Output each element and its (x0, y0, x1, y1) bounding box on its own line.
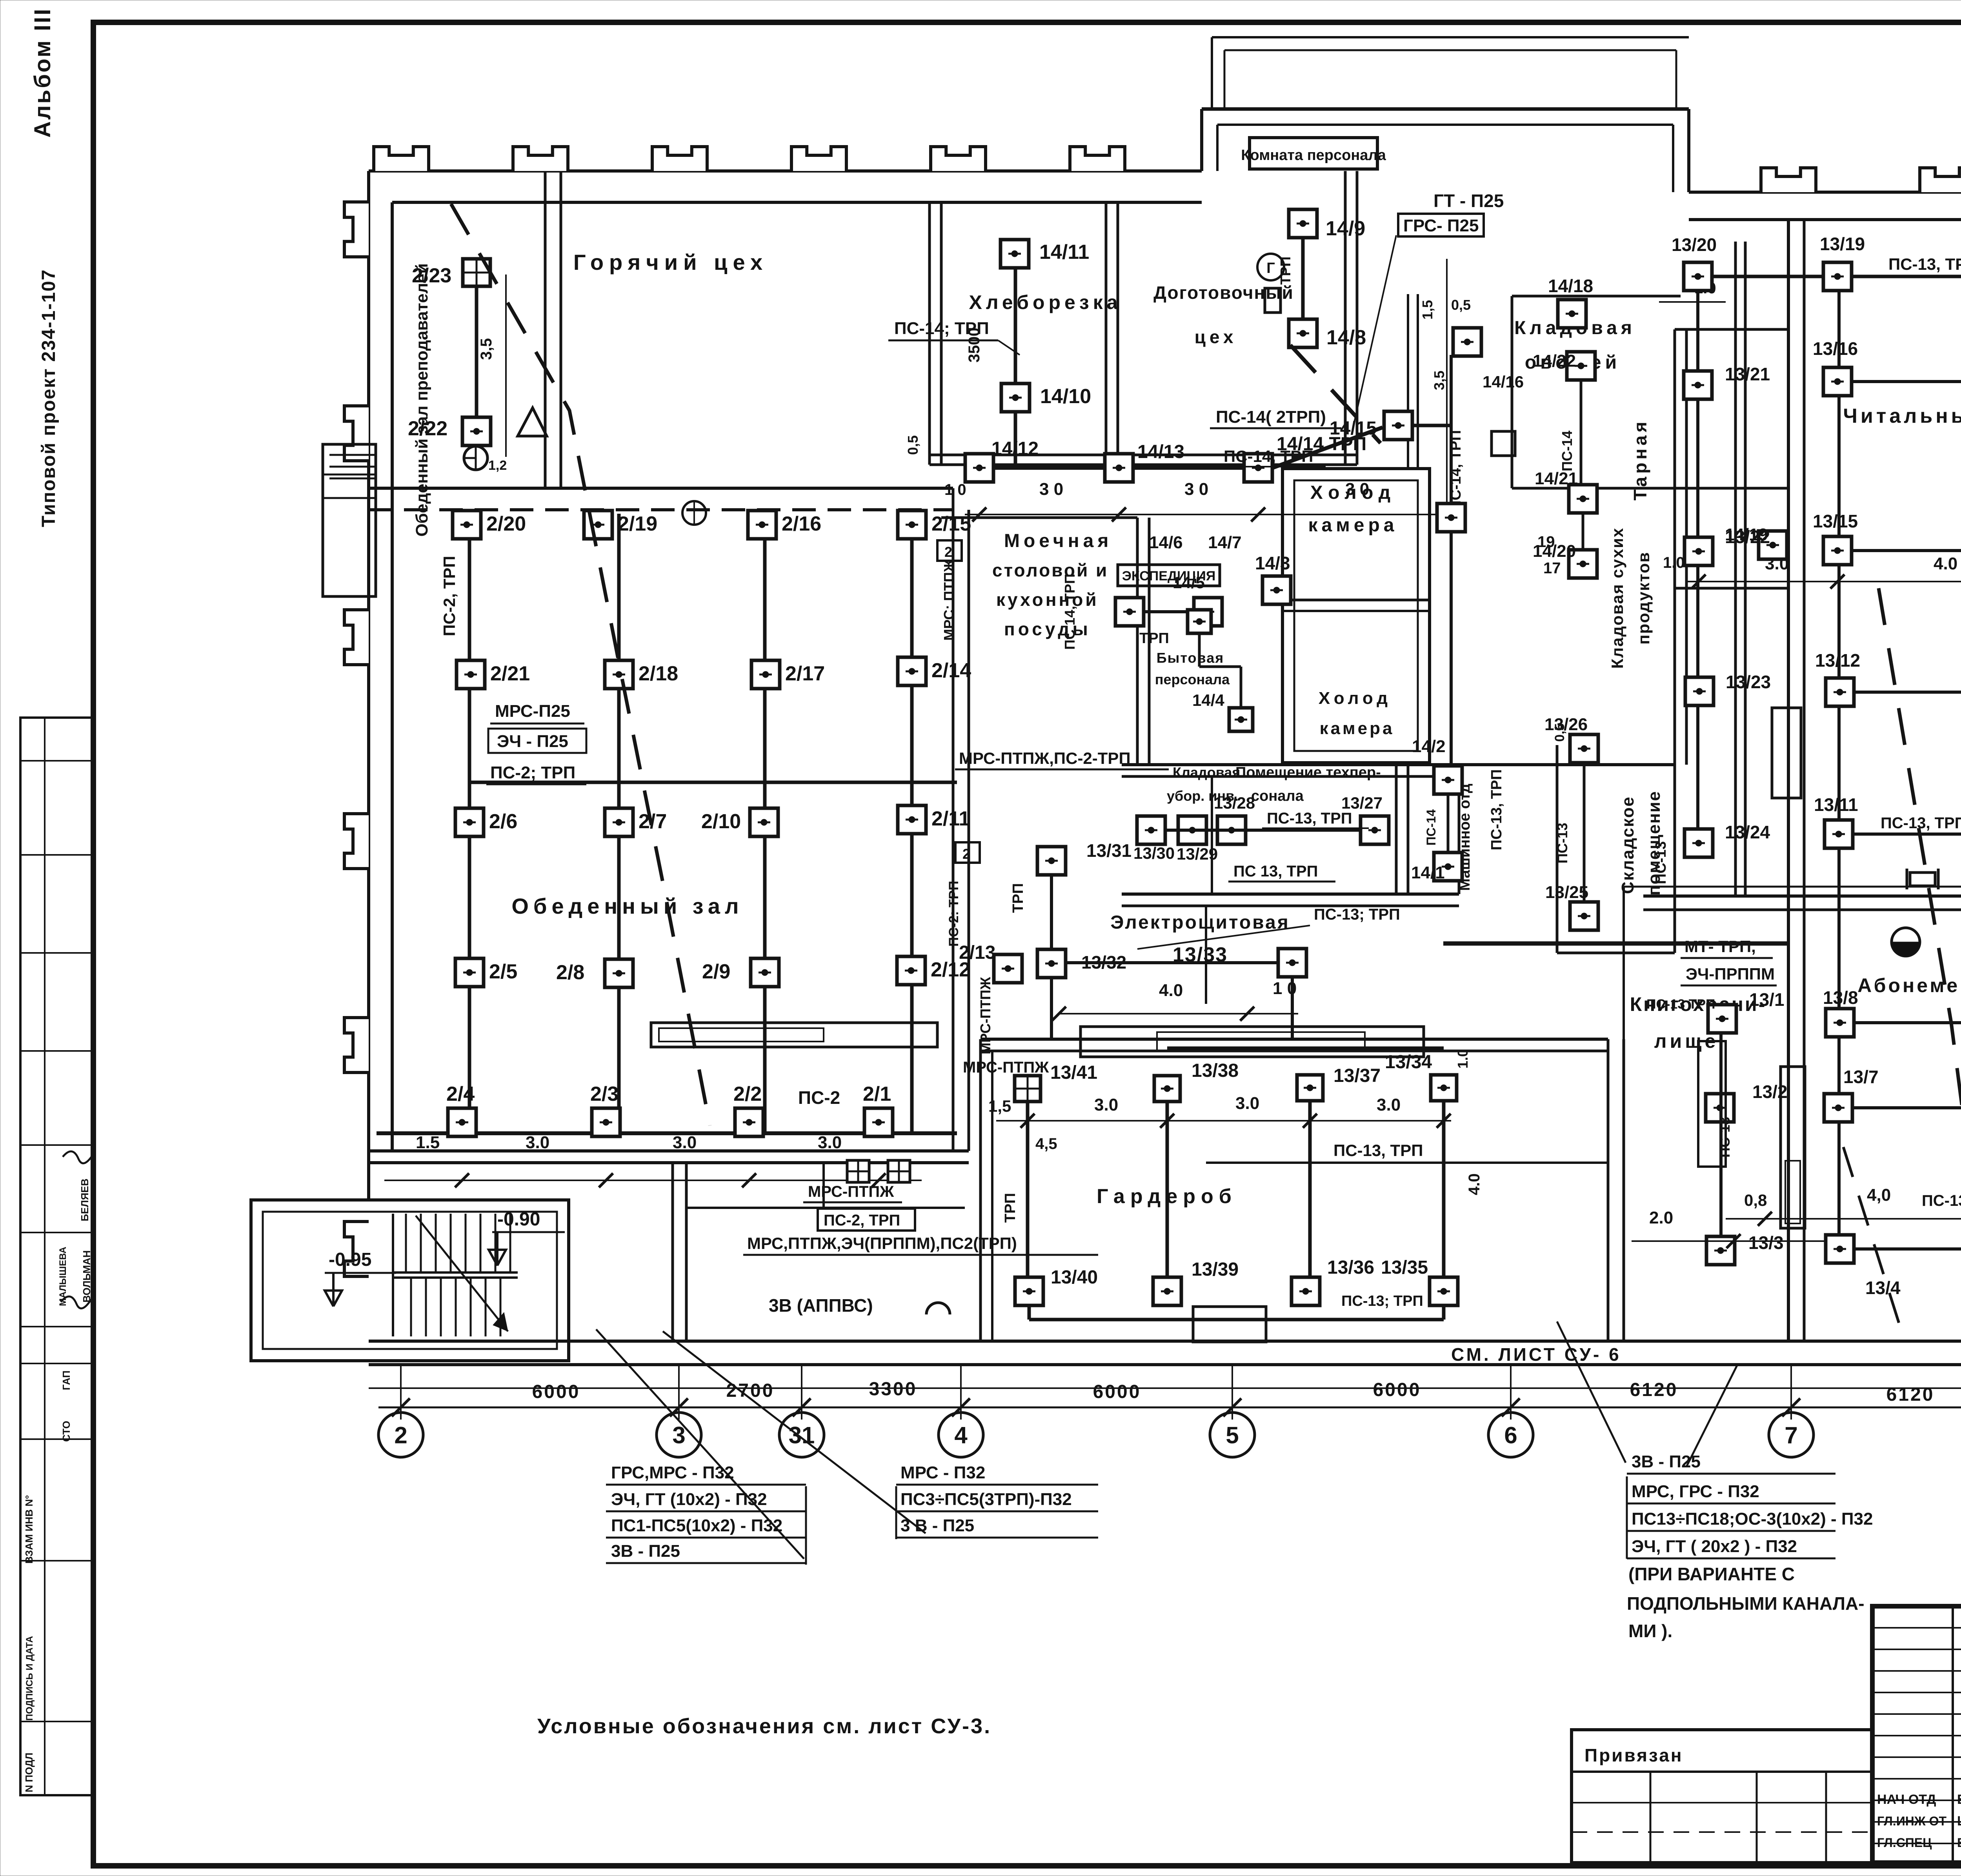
svg-text:ТРП: ТРП (1277, 256, 1293, 285)
svg-text:3В - П25: 3В - П25 (1632, 1452, 1701, 1471)
svg-text:N ПОДЛ: N ПОДЛ (23, 1752, 35, 1792)
svg-text:14/7: 14/7 (1208, 533, 1242, 552)
svg-text:4: 4 (954, 1422, 968, 1449)
svg-text:6: 6 (1504, 1422, 1517, 1449)
svg-text:1 0: 1 0 (944, 481, 966, 498)
svg-text:3,5: 3,5 (478, 338, 495, 360)
svg-text:ПС-14, ТРП: ПС-14, ТРП (1224, 447, 1313, 465)
svg-text:БУХАРЕВА: БУХАРЕВА (1957, 1836, 1961, 1850)
svg-text:14/22: 14/22 (1533, 351, 1576, 371)
svg-text:МИ ).: МИ ). (1628, 1621, 1672, 1641)
svg-text:4.0: 4.0 (1466, 1173, 1483, 1195)
svg-text:БЕЛЯЕВ: БЕЛЯЕВ (79, 1178, 91, 1221)
svg-text:ПС-13; ТРП: ПС-13; ТРП (1314, 906, 1400, 923)
svg-text:ПС-13, ТРП: ПС-13, ТРП (1881, 814, 1961, 832)
svg-text:3.0: 3.0 (1765, 554, 1789, 573)
svg-text:ПОДПОЛЬНЫМИ КАНАЛА-: ПОДПОЛЬНЫМИ КАНАЛА- (1627, 1593, 1865, 1614)
svg-text:6000: 6000 (1093, 1382, 1141, 1402)
svg-text:ТРП: ТРП (1002, 1193, 1019, 1223)
svg-text:13/39: 13/39 (1192, 1259, 1239, 1280)
svg-text:13/1: 13/1 (1749, 989, 1785, 1010)
svg-text:4,0: 4,0 (1867, 1185, 1891, 1205)
svg-text:3.0: 3.0 (1377, 1095, 1401, 1114)
svg-text:ЭЧ - П25: ЭЧ - П25 (497, 732, 568, 751)
svg-text:камера: камера (1308, 515, 1398, 536)
svg-text:МТ- ТРП,: МТ- ТРП, (1684, 937, 1756, 956)
svg-text:13/4: 13/4 (1865, 1278, 1901, 1298)
svg-text:3В (АППВС): 3В (АППВС) (769, 1295, 873, 1316)
svg-text:ПС-13: ПС-13 (1653, 841, 1669, 884)
svg-text:1,5: 1,5 (988, 1097, 1011, 1115)
svg-text:17: 17 (1543, 560, 1561, 577)
svg-text:МРС-ПТПЖ,ПС-2-ТРП: МРС-ПТПЖ,ПС-2-ТРП (959, 749, 1131, 767)
svg-text:5: 5 (1226, 1422, 1239, 1449)
svg-text:2: 2 (962, 846, 970, 862)
svg-text:кухонной: кухонной (996, 589, 1099, 610)
svg-text:Кладовая сухих: Кладовая сухих (1608, 527, 1626, 669)
svg-text:2/16: 2/16 (782, 513, 821, 535)
svg-text:НАЧ ОТД: НАЧ ОТД (1877, 1792, 1936, 1807)
svg-text:2: 2 (394, 1422, 407, 1449)
svg-text:14/6: 14/6 (1149, 533, 1183, 552)
svg-text:2/1: 2/1 (863, 1083, 891, 1105)
svg-text:3.0: 3.0 (673, 1133, 697, 1152)
svg-text:ГЛ.СПЕЦ: ГЛ.СПЕЦ (1877, 1836, 1932, 1850)
svg-text:посуды: посуды (1004, 619, 1091, 639)
svg-text:Моечная: Моечная (1004, 531, 1112, 551)
svg-text:ПС-13 ТРП: ПС-13 ТРП (1646, 997, 1715, 1012)
svg-text:13/15: 13/15 (1813, 511, 1858, 531)
svg-text:ПС-13, ТРП: ПС-13, ТРП (1488, 769, 1505, 851)
svg-text:МРС,ПТПЖ,ЭЧ(ПРППМ),ПС2(ТРП): МРС,ПТПЖ,ЭЧ(ПРППМ),ПС2(ТРП) (747, 1234, 1017, 1252)
svg-text:продуктов: продуктов (1634, 551, 1653, 644)
svg-text:3,5: 3,5 (1431, 371, 1447, 390)
svg-text:ПС-2: ПС-2 (798, 1087, 840, 1108)
svg-text:Альбом III: Альбом III (30, 7, 55, 138)
svg-text:7: 7 (1785, 1422, 1797, 1449)
svg-text:ВОЛЬМАН: ВОЛЬМАН (81, 1250, 93, 1302)
svg-text:Холод: Холод (1319, 689, 1392, 708)
svg-text:ГРС- П25: ГРС- П25 (1403, 216, 1479, 235)
svg-text:1.0: 1.0 (1455, 1049, 1471, 1069)
svg-text:ПС-2, ТРП: ПС-2, ТРП (824, 1212, 900, 1229)
svg-text:персонала: персонала (1155, 671, 1230, 687)
svg-text:6120: 6120 (1630, 1380, 1678, 1400)
svg-text:ВЗАМ ИНВ N°: ВЗАМ ИНВ N° (23, 1495, 35, 1563)
svg-text:3В - П25: 3В - П25 (611, 1542, 680, 1561)
svg-text:Типовой проект 234-1-107: Типовой проект 234-1-107 (38, 269, 59, 527)
svg-text:13/8: 13/8 (1823, 987, 1858, 1008)
svg-text:6120: 6120 (1886, 1384, 1935, 1405)
svg-text:2.0: 2.0 (1649, 1208, 1673, 1227)
svg-text:6000: 6000 (532, 1382, 580, 1402)
svg-text:2/5: 2/5 (489, 960, 517, 983)
svg-text:-0.95: -0.95 (329, 1249, 371, 1270)
svg-text:14/5: 14/5 (1173, 573, 1205, 592)
svg-text:ГАП: ГАП (60, 1371, 72, 1390)
svg-text:2/11: 2/11 (931, 807, 970, 830)
svg-text:МРС-ПТПЖ: МРС-ПТПЖ (808, 1183, 894, 1200)
svg-text:ПС1-ПС5(10х2) - П32: ПС1-ПС5(10х2) - П32 (611, 1516, 782, 1535)
svg-text:13/37: 13/37 (1333, 1065, 1381, 1086)
svg-text:ЭЧ, ГТ ( 20х2 ) - П32: ЭЧ, ГТ ( 20х2 ) - П32 (1632, 1537, 1797, 1556)
svg-text:2/8: 2/8 (556, 961, 584, 984)
svg-text:13/19: 13/19 (1820, 234, 1865, 254)
svg-text:Обеденный зал преподавателей: Обеденный зал преподавателей (413, 263, 431, 536)
svg-text:3.0: 3.0 (1094, 1095, 1118, 1114)
svg-text:3 0: 3 0 (1184, 480, 1208, 499)
svg-text:3.0: 3.0 (1235, 1094, 1259, 1113)
svg-text:ПС-13, ТРП: ПС-13, ТРП (1333, 1141, 1423, 1160)
svg-text:0,5: 0,5 (1451, 297, 1471, 313)
svg-text:ПС-2; ТРП: ПС-2; ТРП (490, 763, 575, 782)
svg-text:Г: Г (1266, 260, 1275, 276)
svg-text:Складское: Складское (1618, 796, 1637, 894)
svg-text:2/21: 2/21 (490, 662, 530, 685)
svg-text:Условные обозначения см. лист: Условные обозначения см. лист СУ-3. (537, 1714, 991, 1738)
svg-text:1,2: 1,2 (488, 458, 507, 473)
svg-text:столовой и: столовой и (992, 560, 1108, 580)
svg-text:2/20: 2/20 (486, 513, 526, 535)
svg-text:2/3: 2/3 (590, 1083, 618, 1105)
svg-text:14/2: 14/2 (1412, 737, 1446, 756)
svg-text:2/23: 2/23 (412, 264, 451, 287)
svg-text:13/3: 13/3 (1748, 1232, 1784, 1253)
svg-text:2/7: 2/7 (639, 810, 667, 833)
svg-text:2/18: 2/18 (639, 662, 678, 685)
svg-text:2: 2 (944, 544, 952, 560)
svg-text:СМ. ЛИСТ СУ- 6: СМ. ЛИСТ СУ- 6 (1451, 1344, 1621, 1365)
svg-text:ПС 14, ТРП: ПС 14, ТРП (1062, 574, 1078, 650)
svg-text:2/9: 2/9 (702, 960, 730, 983)
svg-text:Комната персонала: Комната персонала (1241, 147, 1386, 164)
svg-text:3 0: 3 0 (1345, 480, 1369, 499)
svg-text:2/17: 2/17 (785, 662, 825, 685)
svg-text:ЭЧ-ПРППМ: ЭЧ-ПРППМ (1686, 965, 1775, 983)
svg-text:13/31: 13/31 (1086, 840, 1131, 861)
svg-text:13/26: 13/26 (1544, 715, 1588, 734)
svg-text:14/4: 14/4 (1192, 691, 1224, 709)
svg-text:13/12: 13/12 (1815, 650, 1860, 671)
svg-text:-0.90: -0.90 (497, 1209, 540, 1230)
svg-text:ГТ - П25: ГТ - П25 (1433, 191, 1504, 211)
svg-text:3 В - П25: 3 В - П25 (900, 1516, 974, 1535)
svg-text:2/2: 2/2 (733, 1083, 762, 1105)
svg-text:13/21: 13/21 (1725, 364, 1770, 384)
svg-text:13/16: 13/16 (1813, 338, 1858, 359)
svg-text:19: 19 (1537, 533, 1555, 551)
svg-text:МРС-П25: МРС-П25 (495, 702, 570, 721)
svg-text:1.0: 1.0 (1663, 554, 1685, 571)
svg-text:3.0: 3.0 (526, 1133, 549, 1152)
svg-text:сонала: сонала (1251, 788, 1304, 804)
svg-text:2/22: 2/22 (408, 417, 448, 440)
svg-text:Электрощитовая: Электрощитовая (1110, 912, 1290, 933)
svg-text:ПОДПИСЬ И ДАТА: ПОДПИСЬ И ДАТА (24, 1636, 35, 1721)
svg-text:14/9: 14/9 (1326, 217, 1365, 240)
svg-text:ТРП: ТРП (1010, 883, 1026, 913)
svg-text:цех: цех (1195, 327, 1237, 347)
svg-text:1,5: 1,5 (1419, 300, 1435, 320)
svg-text:Хлеборезка: Хлеборезка (969, 291, 1121, 313)
svg-text:2/4: 2/4 (446, 1083, 475, 1105)
svg-text:13/35: 13/35 (1381, 1257, 1428, 1278)
svg-text:2/6: 2/6 (489, 810, 517, 833)
svg-text:ПС-13: ПС-13 (1554, 823, 1570, 863)
svg-text:2/14: 2/14 (931, 659, 971, 682)
svg-text:13/7: 13/7 (1843, 1067, 1879, 1087)
svg-text:Кладовая: Кладовая (1173, 764, 1240, 780)
svg-text:(ПРИ ВАРИАНТЕ С: (ПРИ ВАРИАНТЕ С (1628, 1564, 1795, 1584)
svg-text:14/18: 14/18 (1548, 276, 1593, 296)
svg-text:3500: 3500 (966, 328, 983, 363)
svg-text:14/16: 14/16 (1483, 373, 1524, 391)
svg-text:2/13: 2/13 (959, 942, 995, 963)
svg-text:3.0: 3.0 (818, 1133, 842, 1152)
svg-text:14/21: 14/21 (1535, 469, 1578, 488)
svg-text:ПС-13, ТРП: ПС-13, ТРП (1888, 255, 1961, 273)
svg-text:БЕЛОВ: БЕЛОВ (1957, 1792, 1961, 1807)
svg-text:ПС-2, ТРП: ПС-2, ТРП (440, 556, 458, 636)
svg-text:14/11: 14/11 (1039, 241, 1089, 264)
svg-text:МРС, ГРС - П32: МРС, ГРС - П32 (1632, 1482, 1759, 1501)
svg-text:ПС-14: ПС-14 (1424, 809, 1438, 846)
svg-text:3300: 3300 (869, 1379, 917, 1400)
svg-text:ПС13÷ПС18;ОС-3(10х2) - П32: ПС13÷ПС18;ОС-3(10х2) - П32 (1632, 1509, 1873, 1529)
svg-text:ГЛ.ИНЖ ОТ: ГЛ.ИНЖ ОТ (1877, 1814, 1947, 1828)
svg-text:ПС-14( 2ТРП): ПС-14( 2ТРП) (1216, 407, 1326, 427)
svg-text:камера: камера (1320, 719, 1395, 738)
svg-text:13/20: 13/20 (1672, 234, 1717, 255)
svg-text:МРС-ПТПЖ: МРС-ПТПЖ (963, 1059, 1049, 1076)
svg-text:ПС-14: ПС-14 (1559, 431, 1575, 471)
svg-text:ТРП: ТРП (1139, 630, 1169, 647)
svg-text:Читальный зал: Читальный зал (1843, 405, 1961, 427)
svg-text:14/3: 14/3 (1255, 553, 1290, 573)
svg-text:13/28: 13/28 (1214, 794, 1255, 812)
svg-text:13/24: 13/24 (1725, 822, 1770, 842)
svg-text:14/12: 14/12 (991, 438, 1039, 459)
svg-text:ПС-2: ТРП: ПС-2: ТРП (946, 881, 961, 947)
svg-text:СТО: СТО (60, 1421, 72, 1442)
svg-text:13/38: 13/38 (1192, 1060, 1239, 1081)
svg-text:Тарная: Тарная (1630, 419, 1650, 501)
svg-text:ПС-13; ТРП: ПС-13; ТРП (1922, 1192, 1961, 1209)
svg-text:13/36: 13/36 (1327, 1257, 1374, 1278)
svg-text:13/11: 13/11 (1814, 794, 1858, 815)
svg-text:2/10: 2/10 (701, 810, 741, 833)
svg-text:14/1: 14/1 (1411, 863, 1445, 882)
svg-text:13/23: 13/23 (1726, 672, 1771, 692)
svg-text:ГРС,МРС - П32: ГРС,МРС - П32 (611, 1463, 734, 1482)
svg-text:ПС3÷ПС5(3ТРП)-П32: ПС3÷ПС5(3ТРП)-П32 (900, 1490, 1072, 1509)
svg-text:13/41: 13/41 (1050, 1062, 1097, 1083)
svg-text:6000: 6000 (1373, 1380, 1421, 1400)
svg-text:3 0: 3 0 (1039, 480, 1063, 499)
svg-text:ПС 13, ТРП: ПС 13, ТРП (1233, 863, 1318, 880)
svg-text:4.0: 4.0 (1934, 554, 1957, 573)
svg-text:МРС: ПТПЖ: МРС: ПТПЖ (941, 559, 957, 641)
svg-text:МРС - П32: МРС - П32 (900, 1463, 985, 1482)
svg-text:14/10: 14/10 (1040, 385, 1091, 408)
svg-text:13/22: 13/22 (1725, 527, 1770, 547)
svg-text:Бытовая: Бытовая (1157, 650, 1224, 666)
svg-text:ШИЛОВ: ШИЛОВ (1957, 1814, 1961, 1829)
svg-text:13/29: 13/29 (1177, 845, 1218, 863)
svg-text:4.0: 4.0 (1159, 981, 1183, 1000)
svg-text:14/13: 14/13 (1137, 442, 1184, 462)
svg-text:4,5: 4,5 (1035, 1135, 1057, 1153)
svg-text:Помещение техпер-: Помещение техпер- (1235, 764, 1381, 781)
svg-text:Горячий цех: Горячий цех (573, 250, 768, 274)
svg-text:ПС-13; ТРП: ПС-13; ТРП (1341, 1293, 1423, 1309)
svg-text:13/30: 13/30 (1133, 844, 1175, 862)
svg-text:2/15: 2/15 (931, 513, 971, 535)
svg-text:ПС-13, ТРП: ПС-13, ТРП (1267, 810, 1352, 827)
svg-text:МРС-ПТПЖ: МРС-ПТПЖ (977, 977, 993, 1054)
svg-text:13/40: 13/40 (1051, 1267, 1098, 1288)
svg-text:0,8: 0,8 (1744, 1191, 1767, 1209)
svg-text:0,5: 0,5 (905, 435, 921, 455)
svg-text:14/8: 14/8 (1326, 326, 1366, 349)
svg-text:1.5: 1.5 (416, 1133, 440, 1152)
svg-text:13/25: 13/25 (1545, 883, 1588, 902)
svg-text:Доготовочный: Доготовочный (1153, 282, 1294, 303)
svg-text:2/19: 2/19 (618, 513, 657, 535)
svg-text:13/2: 13/2 (1752, 1082, 1788, 1102)
svg-text:Привязан: Привязан (1584, 1745, 1683, 1765)
svg-text:Обеденный зал: Обеденный зал (511, 894, 743, 918)
svg-text:13/27: 13/27 (1341, 794, 1383, 812)
